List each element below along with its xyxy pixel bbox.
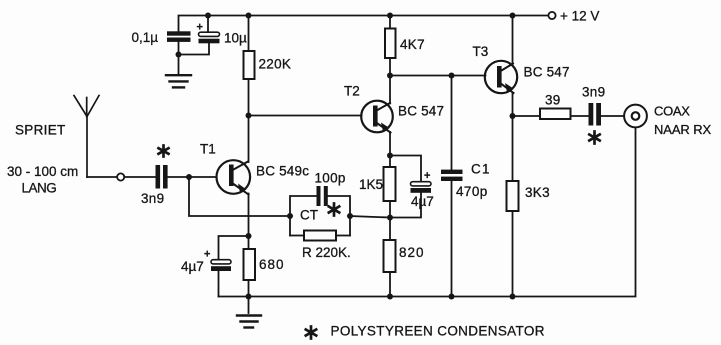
label +12V	[560, 9, 599, 24]
svg-text:+ 12 V: + 12 V	[560, 9, 599, 24]
label 820	[399, 245, 425, 260]
svg-text:220K: 220K	[259, 57, 292, 72]
capacitor 4u7 (T2 emitter)	[411, 182, 432, 193]
resistor 3K3	[507, 181, 519, 211]
svg-text:CT: CT	[300, 208, 318, 223]
svg-text:30 - 100 cm: 30 - 100 cm	[7, 164, 78, 179]
wire 4K7 top lead	[389, 16, 391, 29]
ground (top-left)	[166, 75, 191, 87]
wire 4u7 bypass bottom	[390, 193, 421, 218]
label 39	[545, 93, 561, 108]
svg-text:4K7: 4K7	[400, 37, 425, 52]
wire C3n9 to node A	[168, 176, 189, 178]
wire node to T2 base	[249, 115, 362, 117]
svg-text:3n9: 3n9	[141, 191, 164, 206]
svg-text:+: +	[424, 170, 430, 182]
node C1 top	[449, 73, 455, 79]
label 3n9 output	[582, 85, 605, 100]
label 3K3	[525, 185, 550, 200]
node T3 collector rail	[510, 13, 516, 19]
wire T3 emitter down	[512, 93, 514, 117]
wire 820 top lead	[389, 218, 391, 241]
svg-text:+: +	[204, 249, 210, 261]
capacitor 3n9 output	[589, 103, 602, 126]
svg-text:SPRIET: SPRIET	[15, 123, 66, 138]
capacitor 0,1u	[167, 31, 191, 42]
wire node A to T1 base	[189, 176, 217, 178]
svg-text:1K5: 1K5	[359, 177, 383, 192]
svg-text:3n9: 3n9	[582, 85, 605, 100]
node CT right	[347, 213, 353, 219]
svg-text:0,1µ: 0,1µ	[132, 30, 159, 45]
node T1 emitter	[246, 233, 252, 239]
svg-text:BC 547: BC 547	[524, 65, 570, 80]
svg-text:NAAR RX: NAAR RX	[654, 122, 712, 137]
wire 1K5 bottom lead	[389, 201, 391, 218]
resistor 220K	[244, 51, 255, 79]
svg-text:+: +	[197, 22, 203, 34]
svg-text:C1: C1	[471, 162, 491, 177]
node CT left	[287, 213, 293, 219]
label 4u7	[181, 259, 204, 274]
capacitor 100p	[317, 186, 328, 206]
wire CT loop bottom right	[336, 235, 350, 237]
svg-text:T1: T1	[200, 142, 216, 157]
svg-text:BC 547: BC 547	[398, 104, 444, 119]
wire CT right to 1K5 node	[350, 216, 390, 218]
asterisk (3n9 input)	[159, 146, 169, 157]
svg-text:470p: 470p	[456, 184, 488, 199]
svg-text:BC 549c: BC 549c	[256, 164, 309, 179]
wire top +12V rail	[179, 16, 549, 32]
label CT	[300, 208, 318, 223]
wire 4K7 bottom lead	[389, 58, 391, 76]
label SPRIET	[15, 123, 66, 138]
wire 4u7 bottom lead	[218, 271, 220, 297]
wire 680 top lead	[248, 236, 250, 249]
label C1	[471, 162, 491, 177]
label 0,1u	[132, 30, 159, 45]
label 10u plus	[197, 22, 203, 34]
svg-text:COAX: COAX	[654, 104, 690, 119]
label BC549c	[256, 164, 309, 179]
svg-text:680: 680	[259, 257, 285, 272]
wire T2 collector	[389, 76, 391, 104]
capacitor 3n9 input	[156, 165, 168, 189]
resistor 4K7	[385, 29, 396, 59]
wire T1 emitter down	[248, 194, 250, 237]
svg-text:4µ7: 4µ7	[181, 259, 204, 274]
wire T2 emitter down	[389, 132, 391, 156]
label POLYSTYREEN CONDENSATOR	[331, 324, 545, 339]
label T1	[200, 142, 216, 157]
asterisk (footnote)	[306, 327, 316, 339]
svg-text:R 220K.: R 220K.	[302, 245, 351, 260]
label R 220K.	[302, 245, 351, 260]
node top-left junction	[176, 52, 182, 58]
resistor 39	[540, 109, 571, 120]
node C1 bottom rail	[449, 294, 455, 300]
wire 10u bottom lead	[179, 43, 210, 54]
node 220K top	[246, 13, 252, 19]
svg-text:100p: 100p	[315, 171, 346, 186]
wire emitter to 39	[513, 115, 541, 117]
wire C1 bottom lead	[451, 181, 453, 297]
wire 0,1u bottom lead	[178, 42, 180, 55]
wire ground stem	[248, 297, 250, 314]
capacitor 4u7 (emitter)	[211, 260, 231, 271]
node 4K7 top	[387, 13, 393, 19]
label 4u7#2 plus	[424, 170, 430, 182]
svg-text:POLYSTYREEN CONDENSATOR: POLYSTYREEN CONDENSATOR	[331, 324, 545, 339]
node T1 collector / T2 base	[246, 113, 252, 119]
wire 220K bottom lead	[248, 79, 250, 116]
capacitor 10u electrolytic	[199, 32, 220, 43]
resistor R 220K (CT trimmer)	[304, 231, 336, 241]
wire 220K top lead	[248, 16, 250, 52]
label 4u7#2	[411, 194, 434, 209]
wire T3 collector	[512, 16, 514, 65]
transistor T3	[485, 61, 517, 93]
wire 1K5 top lead	[389, 156, 391, 168]
node 3K3 rail	[510, 294, 516, 300]
wire 3n9 to coax	[601, 115, 624, 117]
transistor T1	[217, 160, 251, 194]
node T2 collector junction	[387, 73, 393, 79]
wire 10u top lead	[207, 16, 209, 33]
label T2	[344, 84, 360, 99]
label 10u	[224, 31, 247, 46]
label NAAR RX	[654, 122, 712, 137]
wire 4u7 bypass top	[390, 156, 421, 182]
wire T1 collector	[248, 116, 250, 163]
svg-text:820: 820	[399, 245, 425, 260]
wire ground lead	[178, 55, 180, 74]
wire 39 to 3n9	[571, 115, 589, 117]
label LANG	[22, 181, 57, 196]
connector coax	[624, 105, 647, 128]
label T3	[473, 44, 489, 59]
antenna	[74, 96, 99, 178]
label 470p	[456, 184, 488, 199]
wire terminal to C 3n9	[124, 176, 155, 178]
transistor T2	[361, 101, 393, 133]
wire 680 bottom lead	[248, 280, 250, 297]
label BC547 (T3)	[524, 65, 570, 80]
label 100p	[315, 171, 346, 186]
asterisk (3n9 output)	[589, 132, 599, 144]
node T3 emitter	[510, 113, 516, 119]
terminal +12V	[548, 12, 555, 19]
wire CT loop bottom left	[290, 235, 304, 237]
node 1K5 bottom	[387, 215, 393, 221]
wire bottom rail	[219, 128, 636, 297]
node 10u top	[205, 13, 211, 19]
wire emitter node to 4u7	[219, 236, 249, 260]
wire 3K3 top lead	[512, 116, 514, 181]
terminal input open circle	[117, 173, 124, 180]
resistor 1K5	[384, 167, 396, 201]
capacitor C1 470p	[441, 170, 463, 181]
wire node A down to CT loop	[189, 177, 290, 216]
ground (main)	[237, 316, 261, 328]
node 820 rail	[387, 294, 393, 300]
label 1K5	[359, 177, 383, 192]
node 1K5 top	[387, 153, 393, 159]
resistor 820	[384, 240, 396, 272]
svg-text:T2: T2	[344, 84, 360, 99]
wire 820 bottom lead	[389, 272, 391, 297]
wire bias line to T3 base	[390, 75, 486, 77]
label 30-100cm	[7, 164, 78, 179]
resistor 680	[244, 249, 256, 280]
label COAX	[654, 104, 690, 119]
label 4u7 plus	[204, 249, 210, 261]
label 680	[259, 257, 285, 272]
svg-text:10µ: 10µ	[224, 31, 247, 46]
svg-text:LANG: LANG	[22, 181, 57, 196]
asterisk (CT)	[329, 204, 339, 216]
node ground rail	[246, 294, 252, 300]
svg-text:T3: T3	[473, 44, 489, 59]
svg-text:39: 39	[545, 93, 561, 108]
node A (T1 base node)	[186, 174, 192, 180]
label 3n9 input	[141, 191, 164, 206]
label 4K7	[400, 37, 425, 52]
svg-text:3K3: 3K3	[525, 185, 550, 200]
wire CT loop left/top/right	[290, 196, 317, 236]
wire C1 top lead	[451, 76, 453, 170]
label 220K	[259, 57, 292, 72]
wire antenna to input terminal	[87, 176, 117, 178]
wire 3K3 bottom lead	[512, 211, 514, 297]
svg-text:4µ7: 4µ7	[411, 194, 434, 209]
label BC547 (T2)	[398, 104, 444, 119]
